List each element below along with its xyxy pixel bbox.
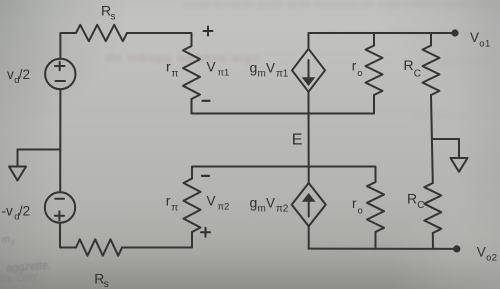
node vo2 dot: [453, 245, 460, 252]
source V2 -vd/2: [45, 192, 75, 222]
svg-text:g: g: [250, 195, 258, 211]
svg-text:m: m: [258, 68, 266, 79]
svg-text:s: s: [111, 12, 116, 23]
source V1 vd/2: [45, 59, 75, 89]
wire rpi1 bottom to ro1 bottom: [192, 95, 375, 114]
svg-text:s: s: [104, 279, 109, 289]
svg-text:V: V: [266, 196, 275, 211]
node vo1 dot: [451, 29, 458, 36]
wire left rail bottom: [60, 223, 76, 248]
svg-text:2: 2: [224, 202, 229, 213]
svg-text:/2: /2: [19, 204, 30, 219]
svg-text:/2: /2: [19, 67, 30, 82]
svg-text:o: o: [486, 253, 491, 264]
ground left: [9, 150, 60, 181]
svg-text:1: 1: [485, 38, 490, 49]
resistor rpi2: [184, 179, 201, 233]
wire RC column mid: [431, 95, 433, 183]
svg-text:π: π: [172, 69, 179, 80]
label minus vpi1: [203, 100, 210, 102]
resistor ro1: [373, 33, 375, 46]
wire rpi2 top to ro2 top: [192, 167, 376, 183]
ground right: [432, 139, 468, 172]
resistor ro2: [367, 182, 384, 232]
resistor RC2: [424, 183, 441, 233]
wire E column: [308, 92, 310, 183]
svg-text:o: o: [357, 68, 362, 79]
wire top-left rail: [60, 33, 76, 59]
svg-text:π: π: [171, 203, 178, 214]
label plus vpi2: [201, 228, 210, 237]
svg-text:r: r: [352, 58, 357, 73]
wire RS1 to rpi1: [127, 33, 192, 46]
svg-text:V: V: [266, 60, 275, 75]
svg-text:2: 2: [283, 204, 289, 215]
svg-text:V: V: [477, 245, 486, 260]
svg-text:g: g: [250, 59, 258, 75]
current source G1 gm*vpi1: [292, 33, 325, 92]
svg-text:v: v: [7, 67, 14, 82]
svg-text:o: o: [479, 38, 484, 49]
svg-text:E: E: [292, 132, 303, 149]
svg-text:V: V: [470, 30, 479, 45]
svg-text:1: 1: [283, 68, 289, 79]
resistor RC1: [430, 33, 432, 46]
svg-text:R: R: [407, 191, 417, 207]
svg-text:2: 2: [492, 253, 497, 264]
svg-text:C: C: [417, 200, 424, 211]
resistor rpi1: [183, 46, 200, 99]
svg-text:m: m: [258, 204, 266, 215]
svg-text:V: V: [207, 60, 216, 75]
svg-text:V: V: [207, 194, 216, 209]
wire left rail mid: [59, 89, 61, 192]
wire bottom rail: [309, 248, 457, 250]
svg-text:r: r: [352, 196, 357, 211]
resistor RS1: [76, 25, 127, 41]
resistor RS2: [76, 239, 122, 255]
label minus vpi2: [202, 175, 209, 177]
svg-text:C: C: [414, 68, 421, 79]
label plus vpi1: [204, 27, 213, 36]
svg-text:R: R: [404, 57, 414, 73]
svg-text:-v: -v: [2, 204, 13, 219]
svg-text:r: r: [166, 59, 171, 75]
wire top rail: [309, 32, 456, 34]
wire RS2 to rpi2: [122, 232, 192, 248]
svg-text:o: o: [358, 206, 363, 217]
svg-text:R: R: [94, 270, 104, 286]
svg-text:1: 1: [224, 68, 229, 79]
current source G2 gm*vpi2: [292, 183, 326, 249]
svg-text:r: r: [166, 193, 171, 209]
